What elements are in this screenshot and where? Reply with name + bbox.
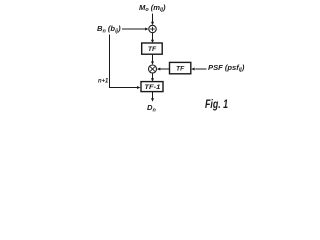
- wire arrow Mo to adder: [151, 14, 154, 26]
- node PSF label: [208, 63, 245, 73]
- wire arrow TF2 to multiplier: [157, 68, 170, 71]
- wire arrow multiplier to TF-1: [151, 73, 154, 82]
- node Mo label: [139, 3, 166, 13]
- svg-text:Fig. 1: Fig. 1: [205, 99, 228, 111]
- wire adder to TF box with arrowhead: [151, 33, 154, 43]
- svg-text:TF: TF: [148, 46, 157, 53]
- block TF (forward transform): [142, 43, 163, 54]
- wire arrow TF-1 to Dn: [151, 92, 154, 102]
- svg-text:PSF (psfij): PSF (psfij): [208, 63, 245, 73]
- svg-text:n+1: n+1: [98, 78, 109, 85]
- svg-text:TF-1: TF-1: [144, 84, 160, 91]
- wire arrow Bn to adder: [122, 28, 149, 31]
- block TF-1 (inverse transform): [141, 82, 163, 92]
- svg-text:TF: TF: [176, 66, 185, 73]
- wire arrow PSF into TF2: [191, 68, 206, 71]
- svg-text:Bn (bij): Bn (bij): [97, 24, 121, 34]
- svg-text:Mo (mij): Mo (mij): [139, 3, 166, 13]
- node Dn label: [147, 103, 156, 113]
- wire feedback line n+1: [110, 35, 141, 90]
- node n+1 label: [98, 78, 109, 85]
- svg-text:Dn: Dn: [147, 103, 156, 113]
- block TF (PSF transform): [170, 62, 191, 73]
- caption Fig. 1: [205, 99, 228, 111]
- multiplier (times circle): [149, 65, 157, 73]
- adder (plus circle): [149, 25, 156, 32]
- node Bn label: [97, 24, 121, 34]
- wire arrow TF to multiplier: [151, 55, 154, 65]
